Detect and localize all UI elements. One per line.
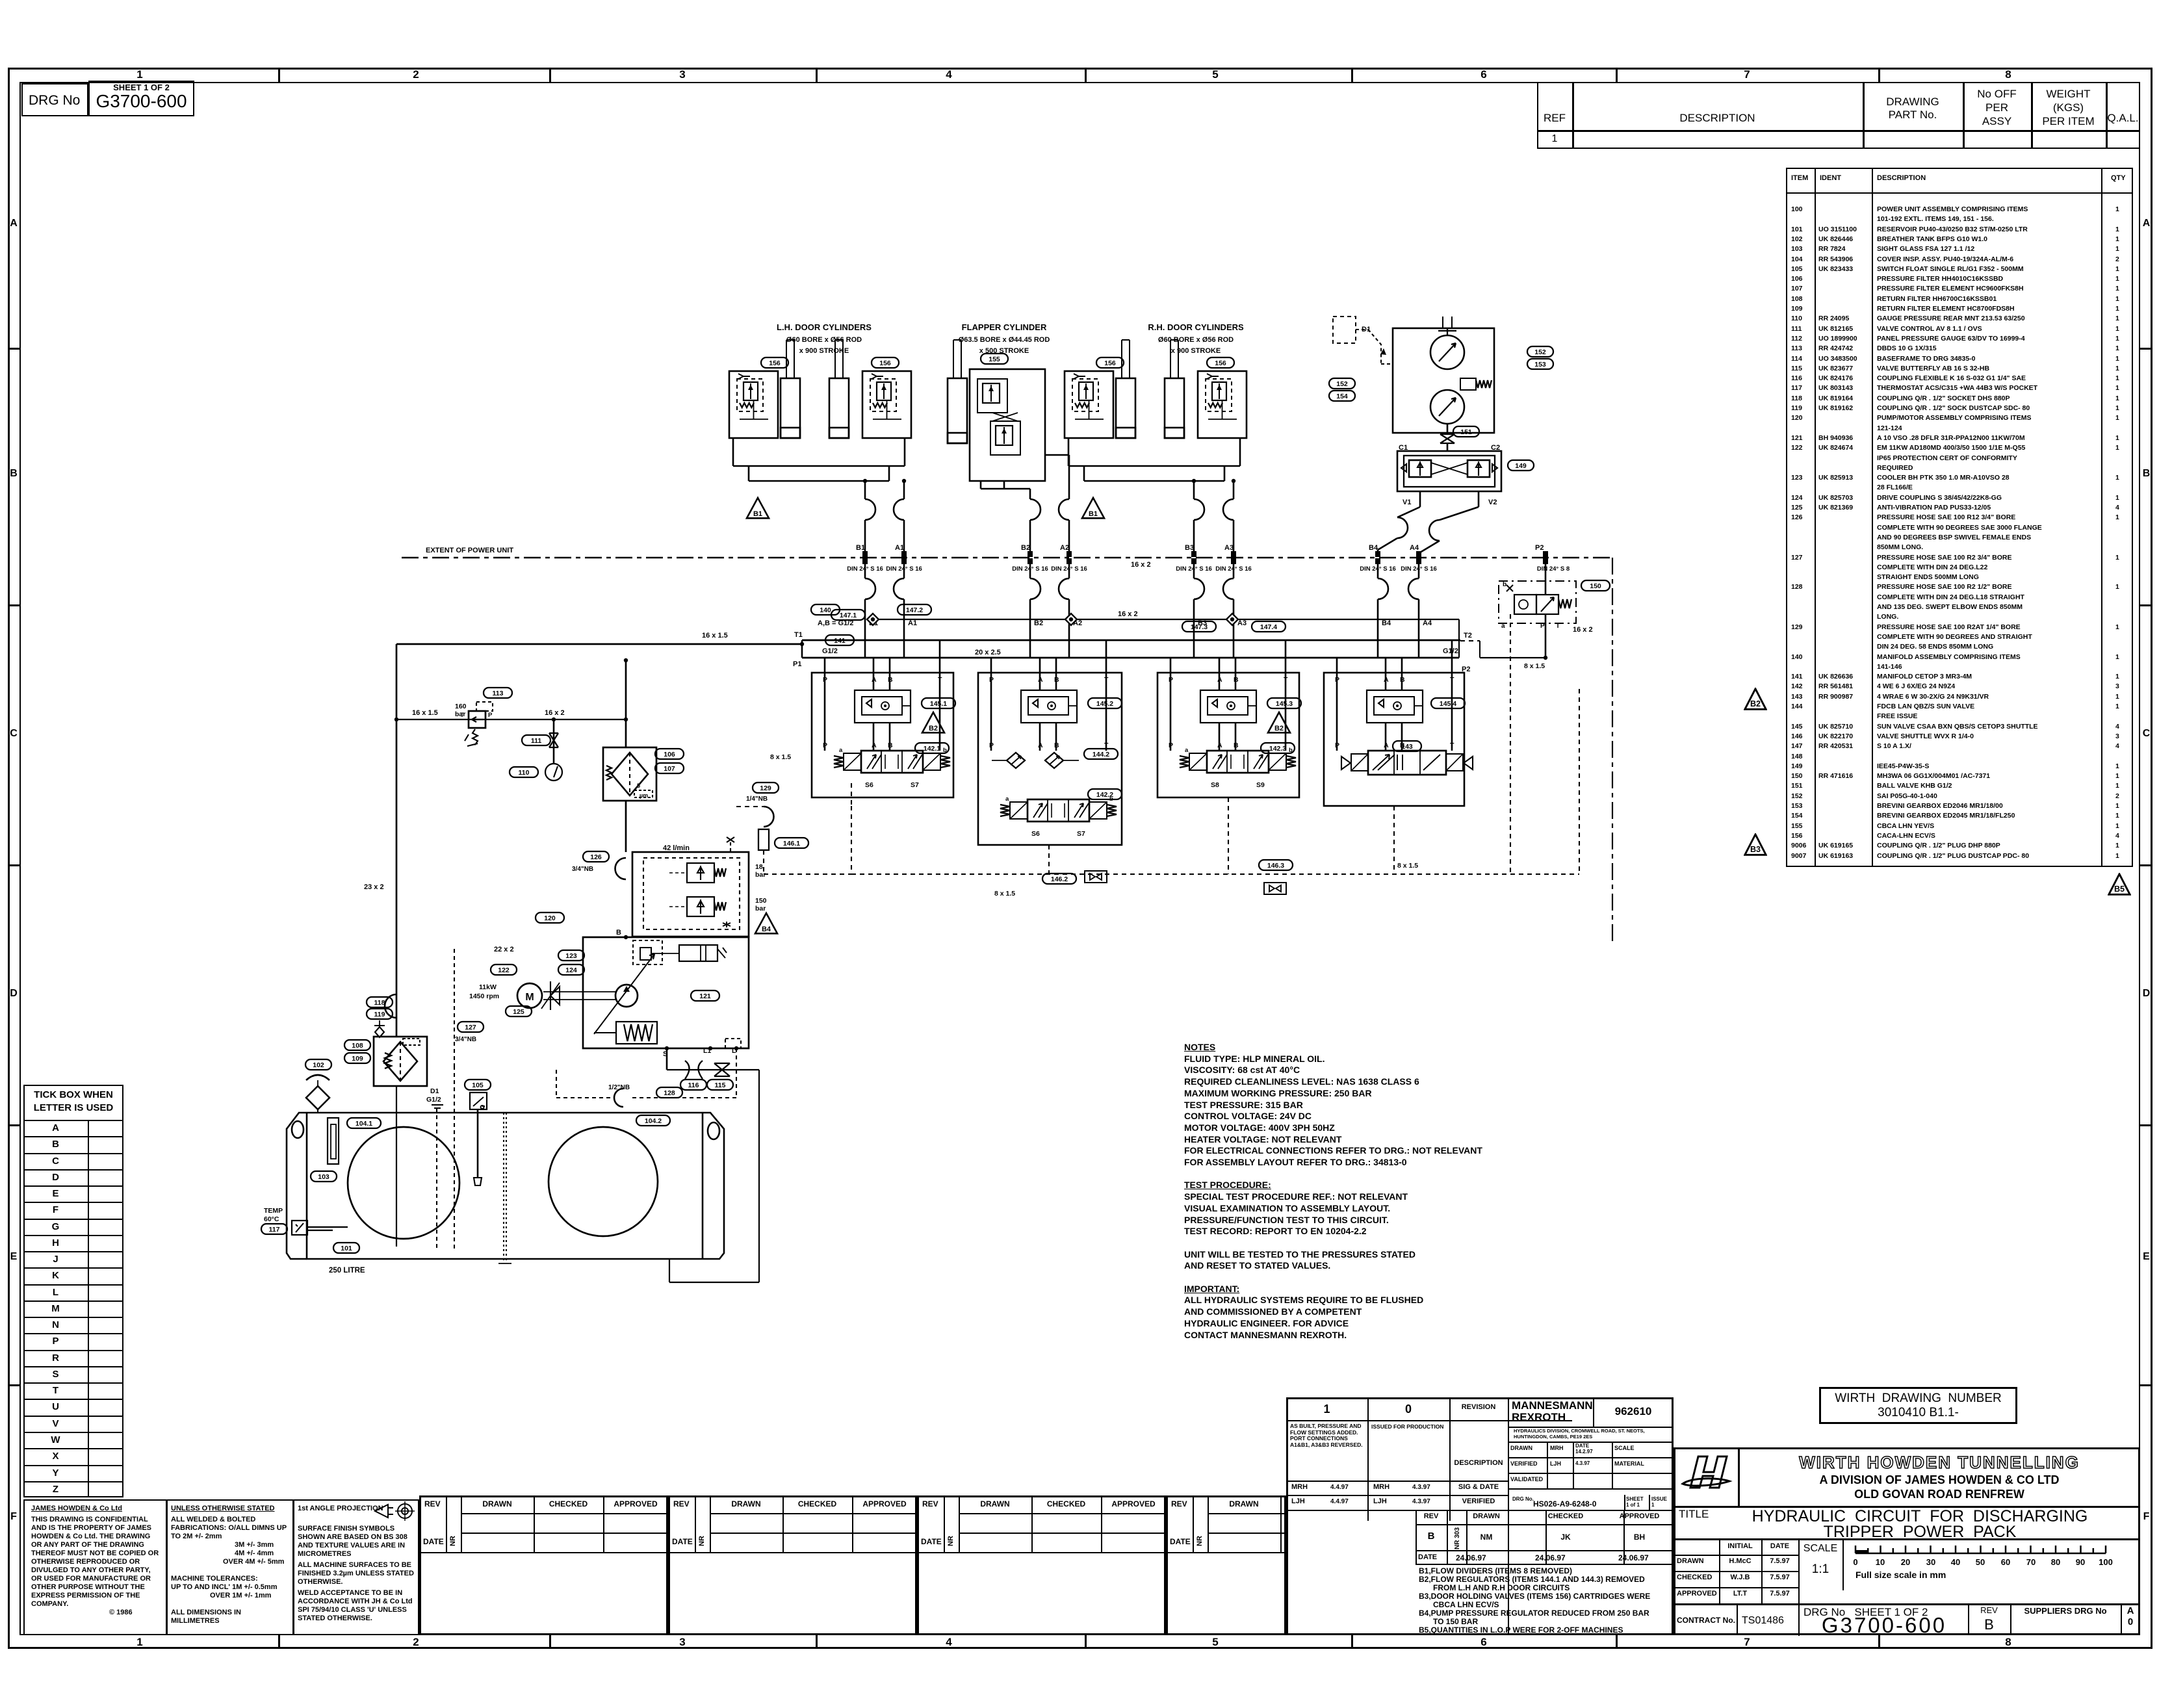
svg-text:127: 127	[465, 1024, 476, 1031]
svg-text:B: B	[1054, 742, 1059, 749]
svg-text:11kW: 11kW	[479, 983, 497, 991]
svg-text:142.2: 142.2	[1096, 791, 1113, 799]
svg-text:146.3: 146.3	[1267, 862, 1284, 870]
svg-text:144.2: 144.2	[1092, 751, 1109, 758]
svg-text:a: a	[1185, 747, 1189, 754]
svg-text:150: 150	[755, 897, 767, 905]
svg-text:153: 153	[1534, 361, 1546, 369]
svg-text:108: 108	[352, 1042, 363, 1050]
svg-text:145.4: 145.4	[1440, 700, 1456, 708]
svg-text:1/4"NB: 1/4"NB	[746, 796, 768, 803]
svg-text:123: 123	[565, 952, 577, 960]
svg-text:B3: B3	[1185, 544, 1194, 552]
svg-text:105: 105	[472, 1081, 484, 1089]
svg-text:8 x 1.5: 8 x 1.5	[1524, 662, 1545, 670]
svg-text:155: 155	[989, 356, 1000, 363]
svg-text:146.2: 146.2	[1051, 875, 1068, 883]
svg-text:18: 18	[755, 863, 763, 871]
svg-text:151: 151	[1460, 428, 1472, 436]
svg-text:111: 111	[531, 737, 542, 745]
svg-text:1450 rpm: 1450 rpm	[469, 992, 499, 1000]
svg-text:Ø60 BORE x Ø56 ROD: Ø60 BORE x Ø56 ROD	[1158, 336, 1234, 344]
svg-text:145.3: 145.3	[1276, 700, 1293, 708]
svg-text:A4: A4	[1423, 619, 1432, 627]
svg-text:118: 118	[374, 999, 385, 1007]
svg-text:S6: S6	[1031, 830, 1040, 838]
svg-text:B4: B4	[1382, 619, 1391, 627]
svg-text:P: P	[989, 742, 994, 749]
svg-text:156: 156	[879, 359, 891, 367]
svg-text:16 x 2: 16 x 2	[1118, 610, 1138, 618]
svg-text:A: A	[1217, 742, 1222, 749]
svg-text:141: 141	[834, 637, 846, 645]
svg-text:P: P	[488, 712, 493, 719]
svg-text:R.H. DOOR CYLINDERS: R.H. DOOR CYLINDERS	[1148, 322, 1244, 332]
svg-text:154: 154	[1336, 393, 1348, 400]
svg-text:M: M	[525, 992, 534, 1003]
svg-text:B2: B2	[1021, 544, 1030, 552]
svg-text:106: 106	[664, 751, 675, 758]
svg-text:119: 119	[374, 1011, 385, 1018]
svg-text:149: 149	[1515, 462, 1527, 470]
svg-text:bar: bar	[755, 871, 766, 879]
svg-text:60°C: 60°C	[264, 1215, 279, 1223]
svg-text:DIN 24° S 8: DIN 24° S 8	[1537, 565, 1570, 573]
svg-text:B2: B2	[1274, 725, 1284, 732]
svg-text:Ø60 BORE x Ø56 ROD: Ø60 BORE x Ø56 ROD	[786, 336, 862, 344]
svg-text:a: a	[1501, 623, 1505, 630]
svg-text:142.3: 142.3	[1269, 745, 1286, 753]
svg-text:S7: S7	[911, 781, 919, 789]
svg-text:145.1: 145.1	[930, 700, 947, 708]
svg-text:121: 121	[699, 992, 711, 1000]
svg-text:S6: S6	[865, 781, 873, 789]
svg-text:109: 109	[352, 1055, 363, 1063]
svg-text:T: T	[1556, 623, 1560, 630]
svg-text:3/4"NB: 3/4"NB	[572, 866, 593, 873]
svg-text:P: P	[1335, 742, 1339, 749]
svg-text:117: 117	[269, 1226, 280, 1234]
svg-text:T: T	[1450, 742, 1454, 749]
svg-text:147.1: 147.1	[840, 612, 857, 619]
svg-text:103: 103	[318, 1173, 330, 1181]
svg-text:a: a	[1005, 796, 1009, 803]
svg-text:V2: V2	[1488, 498, 1497, 506]
svg-text:P: P	[823, 742, 827, 749]
svg-text:147.2: 147.2	[906, 606, 923, 614]
svg-text:a: a	[839, 747, 843, 754]
svg-text:L.H. DOOR CYLINDERS: L.H. DOOR CYLINDERS	[777, 322, 872, 332]
svg-text:147.4: 147.4	[1260, 623, 1277, 631]
svg-text:P1: P1	[793, 660, 801, 668]
svg-text:G1/2: G1/2	[822, 647, 838, 655]
svg-text:16 x 2: 16 x 2	[1131, 561, 1151, 569]
svg-text:8 x 1.5: 8 x 1.5	[770, 753, 791, 761]
svg-text:156: 156	[1104, 359, 1116, 367]
svg-text:110: 110	[519, 769, 530, 777]
svg-text:TEMP: TEMP	[264, 1207, 283, 1215]
svg-text:S7: S7	[1077, 830, 1085, 838]
svg-text:16 x 1.5: 16 x 1.5	[412, 709, 438, 717]
svg-text:116: 116	[688, 1081, 699, 1089]
svg-text:B4: B4	[762, 925, 771, 933]
svg-text:G1/2: G1/2	[426, 1096, 441, 1104]
svg-text:A2: A2	[1060, 544, 1069, 552]
svg-text:104.1: 104.1	[356, 1120, 372, 1128]
svg-text:129: 129	[760, 784, 771, 792]
svg-text:125: 125	[513, 1008, 524, 1016]
svg-text:A: A	[872, 742, 877, 749]
svg-text:23 x 2: 23 x 2	[364, 883, 384, 891]
svg-text:250 LITRE: 250 LITRE	[329, 1267, 365, 1275]
svg-text:107: 107	[664, 765, 675, 773]
svg-text:T2: T2	[1464, 632, 1472, 640]
svg-text:T1: T1	[794, 631, 803, 639]
svg-text:G1/2: G1/2	[1443, 647, 1458, 655]
svg-text:22 x 2: 22 x 2	[494, 946, 514, 953]
svg-text:B1: B1	[856, 544, 865, 552]
svg-text:3/4"NB: 3/4"NB	[455, 1036, 476, 1043]
svg-text:128: 128	[664, 1089, 675, 1097]
svg-text:147.3: 147.3	[1191, 623, 1208, 631]
svg-text:B: B	[616, 929, 621, 937]
svg-text:P: P	[1540, 623, 1545, 630]
svg-text:16 x 1.5: 16 x 1.5	[702, 632, 728, 640]
svg-text:B: B	[1234, 742, 1239, 749]
svg-text:A3: A3	[1224, 544, 1234, 552]
svg-text:143: 143	[1401, 743, 1413, 751]
svg-text:5: 5	[637, 783, 640, 789]
svg-text:x 900 STROKE: x 900 STROKE	[799, 347, 849, 355]
svg-text:B1: B1	[1089, 510, 1098, 518]
svg-text:150: 150	[1590, 582, 1601, 590]
svg-text:1/2"NB: 1/2"NB	[608, 1084, 630, 1091]
svg-text:42 l/min: 42 l/min	[663, 844, 690, 852]
svg-text:S9: S9	[1256, 781, 1265, 789]
svg-text:115: 115	[715, 1081, 726, 1089]
svg-text:140: 140	[820, 606, 831, 614]
svg-text:113: 113	[493, 690, 504, 697]
svg-text:152: 152	[1534, 348, 1546, 356]
svg-text:A4: A4	[1410, 544, 1419, 552]
svg-text:T: T	[460, 712, 464, 719]
svg-text:152: 152	[1336, 380, 1348, 388]
svg-text:142.1: 142.1	[924, 745, 940, 753]
svg-text:Ø63.5 BORE x Ø44.45 ROD: Ø63.5 BORE x Ø44.45 ROD	[959, 336, 1050, 344]
svg-text:156: 156	[1215, 359, 1226, 367]
svg-text:145.2: 145.2	[1096, 700, 1113, 708]
svg-text:B4: B4	[1369, 544, 1378, 552]
svg-text:S8: S8	[1211, 781, 1219, 789]
svg-text:122: 122	[498, 966, 510, 974]
svg-text:102: 102	[313, 1061, 324, 1069]
svg-text:B: B	[888, 742, 893, 749]
svg-text:D1: D1	[430, 1087, 439, 1095]
svg-text:A: A	[1384, 742, 1389, 749]
svg-text:124: 124	[565, 966, 577, 974]
svg-text:EXTENT OF POWER UNIT: EXTENT OF POWER UNIT	[426, 547, 513, 554]
svg-text:b: b	[1503, 581, 1506, 588]
svg-text:160: 160	[455, 703, 467, 710]
svg-text:B1: B1	[753, 510, 762, 518]
svg-text:8 x 1.5: 8 x 1.5	[994, 890, 1015, 898]
svg-text:20 x 2.5: 20 x 2.5	[975, 649, 1001, 656]
svg-text:8 x 1.5: 8 x 1.5	[1397, 862, 1418, 870]
svg-text:104.2: 104.2	[645, 1117, 662, 1125]
svg-text:FLAPPER CYLINDER: FLAPPER CYLINDER	[962, 322, 1047, 332]
svg-text:156: 156	[769, 359, 781, 367]
svg-text:µm: µm	[640, 792, 648, 799]
svg-text:A1: A1	[895, 544, 904, 552]
svg-text:A1: A1	[908, 619, 917, 627]
svg-text:P2: P2	[1535, 544, 1544, 552]
svg-text:126: 126	[590, 853, 602, 861]
svg-text:120: 120	[544, 914, 556, 922]
svg-text:bar: bar	[755, 905, 766, 912]
svg-text:146.1: 146.1	[783, 840, 800, 848]
svg-text:A3: A3	[1237, 619, 1247, 627]
svg-text:P: P	[1169, 742, 1173, 749]
svg-text:16 x 2: 16 x 2	[545, 709, 565, 717]
svg-text:16 x 2: 16 x 2	[1573, 626, 1593, 634]
svg-text:B2: B2	[1034, 619, 1043, 627]
svg-text:A: A	[1038, 742, 1043, 749]
svg-text:101: 101	[341, 1245, 352, 1252]
svg-text:B2: B2	[929, 725, 938, 732]
svg-text:V1: V1	[1403, 498, 1411, 506]
